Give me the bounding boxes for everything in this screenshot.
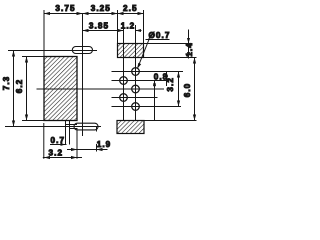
bottom pin (stadium) bbox=[74, 123, 98, 130]
wire: pin stub left bbox=[65, 121, 67, 145]
svg-text:1.2: 1.2 bbox=[121, 21, 136, 30]
hole H4 bbox=[120, 94, 128, 102]
wire: pin stub right bbox=[69, 121, 71, 145]
wire: stub join top bbox=[66, 124, 78, 126]
dimension 3.85 bbox=[83, 30, 124, 32]
svg-text:3.85: 3.85 bbox=[89, 21, 109, 30]
dimension 3.2 right bbox=[178, 72, 180, 107]
svg-text:2.5: 2.5 bbox=[123, 4, 138, 13]
body outline (side view, hatched) bbox=[44, 57, 77, 121]
svg-text:3.75: 3.75 bbox=[55, 4, 75, 13]
svg-text:6.0: 6.0 bbox=[183, 83, 192, 98]
dimension 1.9 bbox=[67, 149, 108, 151]
dimension 3.75 bbox=[44, 13, 83, 15]
pad top (hatched) bbox=[118, 44, 144, 58]
dimension 0.8 bbox=[166, 72, 168, 87]
wire: top pin centerline / 7.3 top extension bbox=[8, 50, 97, 52]
hole H3 bbox=[132, 85, 140, 93]
top pin (stadium) bbox=[72, 47, 92, 54]
dimension 0.8 second (unlabeled) bbox=[154, 81, 156, 121]
svg-text:1.9: 1.9 bbox=[97, 140, 112, 149]
node column left centerline bbox=[123, 24, 125, 121]
svg-text:0.7: 0.7 bbox=[51, 136, 66, 145]
node row B centerline bbox=[112, 80, 170, 82]
dimension 6.0 bbox=[194, 58, 196, 121]
label diameter 0.7 leader bbox=[146, 39, 170, 41]
node row D centerline bbox=[112, 97, 158, 99]
hole H1 bbox=[132, 68, 140, 76]
node row C centerline bbox=[37, 88, 165, 90]
dimension 6.2 bbox=[26, 57, 28, 121]
dimension 0.7 bbox=[50, 144, 67, 146]
dimension 1.4 bbox=[144, 43, 193, 45]
svg-text:Ø0.7: Ø0.7 bbox=[149, 31, 171, 40]
svg-text:1.4: 1.4 bbox=[185, 42, 194, 57]
dimension 2.5 bbox=[118, 13, 144, 15]
dimension 3.25 bbox=[83, 13, 118, 15]
svg-text:3.2: 3.2 bbox=[166, 77, 175, 92]
dimension 7.3 bbox=[13, 51, 15, 127]
node row A centerline bbox=[112, 71, 184, 73]
svg-text:6.2: 6.2 bbox=[15, 79, 24, 94]
wire: stub join bottom bbox=[70, 128, 78, 130]
wire: bottom pin centerline / 7.3 bottom extension bbox=[5, 126, 101, 128]
dimension 3.2 bottom bbox=[43, 157, 82, 159]
node column right centerline bbox=[135, 25, 137, 121]
svg-text:3.25: 3.25 bbox=[91, 4, 111, 13]
pad bottom (hatched) bbox=[117, 121, 144, 134]
svg-text:3.2: 3.2 bbox=[49, 148, 64, 157]
hole H5 bbox=[132, 103, 140, 111]
svg-text:7.3: 7.3 bbox=[2, 76, 11, 91]
node row E centerline bbox=[112, 106, 182, 108]
dimension 1.2 bbox=[136, 30, 142, 32]
wire: PCB vertical line bbox=[82, 14, 84, 137]
hole H2 bbox=[120, 77, 128, 85]
